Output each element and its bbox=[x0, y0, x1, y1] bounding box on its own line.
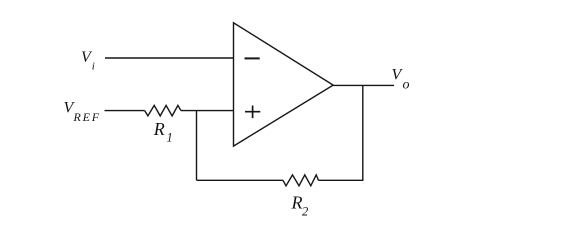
inverting input minus sign bbox=[245, 57, 260, 59]
non-inverting input plus sign bbox=[245, 106, 260, 119]
resistor R2 bbox=[283, 175, 319, 186]
svg-text:REF: REF bbox=[73, 110, 101, 124]
wire R2 to output branch bbox=[319, 179, 363, 181]
svg-text:R: R bbox=[153, 119, 165, 139]
svg-text:i: i bbox=[92, 60, 95, 72]
wire output bbox=[333, 84, 394, 86]
op-amp U1 bbox=[234, 23, 334, 146]
wire R1 to non-inverting input bbox=[181, 110, 234, 112]
resistor R1 bbox=[145, 105, 181, 116]
wire bottom left to R2 bbox=[197, 179, 284, 181]
wire feedback tap down bbox=[196, 111, 198, 181]
svg-text:2: 2 bbox=[302, 205, 308, 219]
svg-text:R: R bbox=[291, 193, 303, 213]
wire output branch vertical bbox=[362, 85, 364, 181]
wire Vi to inverting input bbox=[105, 57, 234, 59]
wire VREF to resistor R1 bbox=[105, 110, 145, 112]
svg-text:o: o bbox=[403, 78, 410, 93]
svg-text:1: 1 bbox=[167, 130, 173, 144]
